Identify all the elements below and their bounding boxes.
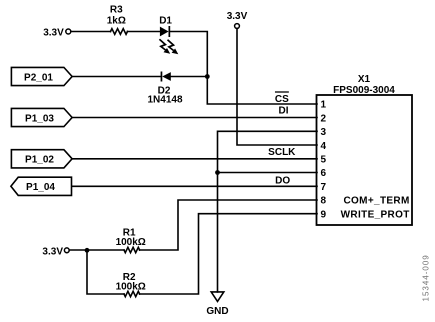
svg-text:100kΩ: 100kΩ	[116, 237, 146, 248]
svg-text:15344-009: 15344-009	[422, 254, 431, 301]
svg-text:COM+_TERM: COM+_TERM	[343, 196, 409, 207]
svg-text:6: 6	[321, 168, 327, 179]
svg-text:GND: GND	[206, 306, 228, 317]
svg-text:3.3V: 3.3V	[42, 247, 63, 258]
svg-text:3.3V: 3.3V	[43, 27, 64, 38]
svg-text:1kΩ: 1kΩ	[107, 16, 126, 27]
svg-text:P1_03: P1_03	[25, 113, 54, 124]
svg-text:DO: DO	[275, 176, 290, 187]
svg-text:9: 9	[321, 209, 327, 220]
svg-text:CS: CS	[275, 94, 289, 105]
svg-text:5: 5	[321, 155, 327, 166]
svg-text:D1: D1	[159, 16, 172, 27]
svg-text:FPS009-3004: FPS009-3004	[333, 85, 395, 96]
svg-text:8: 8	[321, 196, 327, 207]
svg-text:4: 4	[321, 141, 327, 152]
svg-text:X1: X1	[358, 74, 371, 85]
svg-text:2: 2	[321, 113, 327, 124]
svg-text:WRITE_PROT: WRITE_PROT	[341, 209, 410, 220]
svg-text:7: 7	[321, 182, 327, 193]
svg-text:3: 3	[321, 127, 327, 138]
svg-text:1: 1	[321, 100, 327, 111]
svg-text:1N4148: 1N4148	[147, 95, 182, 106]
svg-text:DI: DI	[279, 106, 289, 117]
svg-text:SCLK: SCLK	[268, 147, 296, 158]
svg-text:100kΩ: 100kΩ	[116, 282, 146, 293]
svg-text:3.3V: 3.3V	[227, 11, 248, 22]
svg-text:R3: R3	[110, 5, 123, 16]
svg-text:P1_02: P1_02	[25, 155, 54, 166]
svg-text:P2_01: P2_01	[24, 72, 53, 83]
svg-text:P1_04: P1_04	[26, 182, 55, 193]
